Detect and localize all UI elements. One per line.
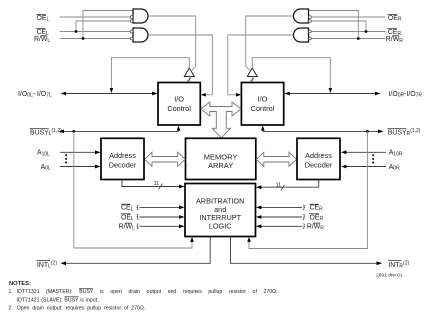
wire A10R (341, 150, 386, 154)
wire BUSYR (263, 130, 384, 134)
tri-state buffer left (184, 68, 194, 82)
pin label BUSYL (30, 128, 62, 137)
pin label CER (arbitration) (309, 204, 323, 212)
wire CER branch to gate G3 bottom input (311, 21, 366, 32)
I/O data line left (61, 92, 158, 96)
pin label R/WL (arbitration) (119, 223, 135, 231)
hollow bus arrow between I/O Controls and down to memory (201, 102, 241, 138)
block Address Decoder left (101, 138, 144, 179)
svg-text:R/WR: R/WR (386, 36, 403, 44)
pin label OEL (arbitration) (121, 214, 134, 222)
and-gate G2 (write enable, left) (130, 28, 148, 42)
wire right buffer output to I/O line (252, 58, 332, 93)
note 1 line 2 (17, 297, 99, 304)
pin label BUSYR (388, 128, 421, 137)
wire OEL to gate G1 (60, 16, 131, 18)
svg-text:IDT71321 (MASTER): BUSY is ope: IDT71321 (MASTER): BUSY is open drain ou… (17, 289, 278, 295)
svg-text:I/O: I/O (258, 95, 268, 104)
svg-text:ARRAY: ARRAY (208, 161, 233, 170)
and-gate G1 (read enable, left) (130, 9, 148, 23)
block I/O Control left (158, 83, 200, 126)
and-gate G3 (read enable, right) (294, 9, 312, 23)
pin label R/WL (34, 36, 50, 44)
svg-text:CER: CER (310, 205, 324, 213)
svg-text:Open drain output: requires pu: Open drain output: requires pullup resis… (17, 305, 146, 311)
wire BUSYL down to arbitration (74, 131, 194, 248)
svg-text:A10L: A10L (37, 150, 50, 158)
pin label R/WR (386, 36, 403, 44)
pin label CEL (arbitration) (121, 204, 134, 212)
wire R/WR to gate G4 (311, 38, 385, 40)
svg-text:2691 drw 01: 2691 drw 01 (376, 272, 403, 278)
wire CER to arbitration (256, 205, 305, 210)
svg-text:11: 11 (154, 181, 159, 187)
wire BUSYL up into left I/O Control (177, 126, 181, 132)
wire BUSYL (59, 130, 179, 134)
wire G4 output to right I/O Control (228, 35, 294, 95)
and-gate G4 (write enable, right) (294, 28, 312, 42)
svg-text:LOGIC: LOGIC (209, 221, 232, 230)
junction CER (365, 30, 368, 33)
pin label CEL (36, 29, 49, 37)
svg-text:Decoder: Decoder (305, 160, 333, 169)
ellipsis dots left address (65, 154, 67, 163)
svg-text:Decoder: Decoder (109, 160, 137, 169)
junction R/WR (357, 37, 360, 40)
note 1 line 1 (9, 289, 278, 296)
svg-text:OER: OER (310, 214, 324, 222)
wire BUSYR down to arbitration (247, 131, 367, 248)
pin label OER (388, 14, 402, 22)
pin label CER (388, 29, 402, 37)
pin label OER (arbitration) (309, 214, 323, 222)
wire R/WL branch to gate G1 top input (83, 11, 133, 39)
tri-state buffer right (247, 68, 257, 82)
wire A0L (60, 165, 101, 169)
svg-text:OEL: OEL (121, 214, 134, 222)
junction CEL (75, 30, 78, 33)
wire R/WL to gate G2 (60, 38, 131, 40)
svg-text:IDT71421 (SLAVE): BUSY is inpu: IDT71421 (SLAVE): BUSY is input. (17, 297, 99, 303)
svg-text:NOTES:: NOTES: (9, 281, 31, 287)
svg-text:OEL: OEL (37, 15, 50, 23)
block I/O Control right (241, 83, 283, 126)
note 2 (9, 305, 146, 311)
block Address Decoder right (297, 138, 340, 179)
I/O data line right (284, 92, 380, 96)
wire CER to gate G4 (311, 31, 385, 33)
wire CEL branch to gate G1 bottom input (76, 21, 130, 32)
wire G1 output to left buffer enable (148, 16, 196, 70)
wire INTR (231, 237, 383, 266)
hollow bus arrow left decoder to memory (145, 152, 186, 166)
pin label INTL (37, 260, 58, 269)
wire A10L (60, 150, 101, 154)
block ARBITRATION and INTERRUPT LOGIC (185, 184, 256, 237)
pin label OEL (36, 14, 49, 22)
svg-text:11: 11 (276, 182, 281, 188)
wire INTL (61, 237, 211, 266)
block MEMORY ARRAY (186, 138, 256, 179)
pin label R/WR (arbitration) (307, 223, 324, 231)
svg-text:Control: Control (251, 104, 275, 113)
svg-text:CEL: CEL (121, 205, 134, 213)
wire R/WL to arbitration (137, 224, 185, 229)
hollow bus arrow right decoder to memory (256, 152, 296, 166)
svg-text:OER: OER (388, 15, 402, 23)
wire A0R (341, 165, 386, 169)
svg-text:R/WR: R/WR (307, 224, 324, 232)
svg-text:A0R: A0R (389, 164, 400, 172)
bus 11 right decoder to arbitration (256, 180, 319, 190)
svg-text:I/O: I/O (174, 95, 184, 104)
pin label INTR (388, 260, 409, 269)
svg-text:A0L: A0L (41, 164, 51, 172)
svg-text:Control: Control (167, 104, 191, 113)
svg-text:I/O0R-I/O7R: I/O0R-I/O7R (389, 91, 423, 99)
svg-text:A10R: A10R (389, 150, 403, 158)
wire G2 output to left I/O Control (148, 35, 212, 95)
wire R/WR branch to gate G3 top input (309, 11, 359, 39)
svg-text:Address: Address (109, 151, 136, 160)
wire left buffer output to I/O line (110, 58, 190, 93)
svg-text:2.: 2. (9, 305, 13, 311)
wire OER to gate G3 (311, 16, 385, 18)
wire OER to arbitration (256, 214, 305, 219)
svg-text:I/O0L- I/O7L: I/O0L- I/O7L (18, 91, 52, 99)
svg-text:Address: Address (305, 151, 332, 160)
junction R/WL (82, 37, 85, 40)
bus 11 left decoder to arbitration (122, 180, 185, 189)
svg-text:R/WL: R/WL (34, 36, 50, 44)
wire CEL to gate G2 (60, 31, 131, 33)
svg-text:R/WL: R/WL (119, 224, 135, 232)
wire OEL to arbitration (137, 214, 185, 219)
wire BUSYR up into right I/O Control (261, 126, 265, 132)
wire G3 output to right buffer enable (246, 16, 294, 70)
wire R/WR to arbitration (256, 224, 305, 229)
ellipsis dots right address (372, 154, 374, 163)
svg-text:1.: 1. (9, 289, 13, 295)
wire CEL to arbitration (137, 205, 185, 210)
